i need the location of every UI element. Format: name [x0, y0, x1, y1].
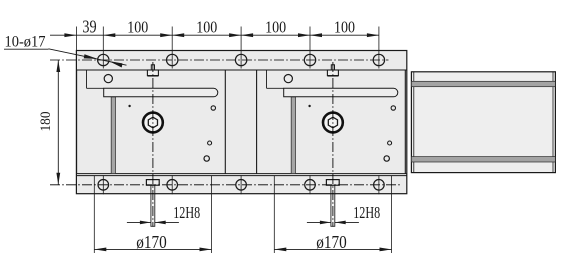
svg-text:100: 100: [265, 17, 286, 36]
svg-text:100: 100: [196, 17, 217, 36]
svg-text:180: 180: [38, 112, 54, 132]
svg-text:100: 100: [127, 17, 148, 36]
svg-text:10-ø17: 10-ø17: [5, 33, 46, 50]
svg-text:100: 100: [334, 17, 355, 36]
svg-text:39: 39: [82, 17, 96, 37]
